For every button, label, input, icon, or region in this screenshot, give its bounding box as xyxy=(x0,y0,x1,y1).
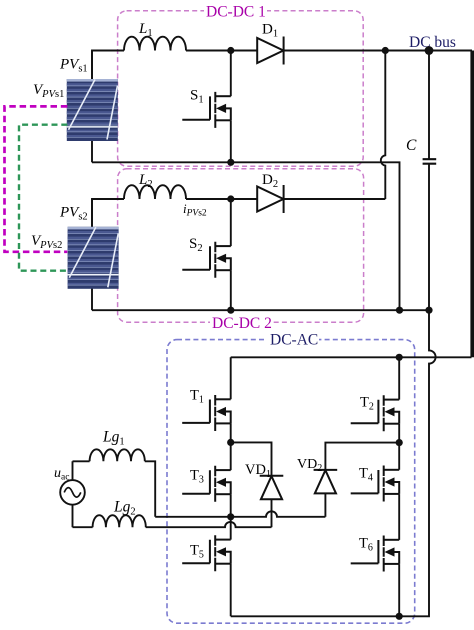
inductor Lg2 xyxy=(93,515,146,527)
svg-text:T2: T2 xyxy=(360,395,374,413)
svg-text:T3: T3 xyxy=(190,468,204,486)
svg-text:DC-AC: DC-AC xyxy=(270,332,318,349)
sense line V_PVs1 magenta xyxy=(5,106,68,251)
sense line V_PVs2 green xyxy=(19,125,67,271)
node S1 source xyxy=(227,159,234,166)
wire inverter left leg segments xyxy=(230,357,232,616)
svg-text:C: C xyxy=(406,137,417,154)
node capacitor bottom xyxy=(425,307,432,314)
inductor L2 xyxy=(124,185,186,199)
diode D2 xyxy=(257,185,283,213)
wire S2 source xyxy=(230,270,232,310)
diode D1 xyxy=(257,37,283,65)
capacitor C plates xyxy=(423,159,437,164)
node inverter bottom right xyxy=(396,613,403,620)
diode VD2 xyxy=(314,470,338,494)
mosfet T4 xyxy=(351,466,400,502)
wire DC bus right thick rail xyxy=(470,51,474,358)
node L1-D1-S1 xyxy=(227,47,234,54)
PV array 2 xyxy=(68,227,119,289)
ac source u_ac circle xyxy=(60,480,85,505)
node S2 source xyxy=(227,307,234,314)
wire Lg1 line to T3/T5 node and VD2 anode with hop over VD1 xyxy=(73,461,326,517)
wire D2-output vertical with hop over PV1 rail xyxy=(381,51,385,200)
node T3-T5 midpoint xyxy=(227,513,234,520)
wire PV1 left vertical xyxy=(91,51,93,163)
svg-text:T1: T1 xyxy=(190,388,204,406)
svg-text:Lg1: Lg1 xyxy=(102,429,125,448)
svg-text:VD2: VD2 xyxy=(297,457,322,474)
node T1-T3 midpoint xyxy=(227,439,234,446)
wire VD2 anode down xyxy=(324,493,326,517)
svg-text:D2: D2 xyxy=(262,172,278,190)
wire top rail DC bus xyxy=(92,51,472,80)
svg-text:Lg2: Lg2 xyxy=(113,499,136,518)
wire Lg2 line to VD1 anode with hop over left leg xyxy=(73,522,272,527)
wire PV2 top rail xyxy=(92,199,385,227)
svg-text:L1: L1 xyxy=(138,21,153,39)
capacitor C branch top xyxy=(428,51,430,160)
wire inverter top rail feed xyxy=(231,356,472,358)
node DC bus capacitor top xyxy=(425,46,434,55)
mosfet T1 xyxy=(182,395,231,431)
node L2-D2-S2 xyxy=(227,195,234,202)
wire PV2 bottom rail xyxy=(92,309,429,311)
svg-text:VD1: VD1 xyxy=(245,462,271,480)
diode VD1 xyxy=(260,476,284,500)
node D2 feed top xyxy=(382,47,389,54)
svg-text:DC-DC 1: DC-DC 1 xyxy=(206,4,266,21)
svg-text:T5: T5 xyxy=(190,543,204,561)
svg-text:PVs1: PVs1 xyxy=(59,57,88,75)
svg-text:L2: L2 xyxy=(138,172,153,190)
svg-text:S2: S2 xyxy=(189,236,203,254)
svg-text:VPVs2: VPVs2 xyxy=(31,233,62,251)
wire VD2 cathode link to T2/T4 node xyxy=(325,443,399,470)
wire VD1 cathode link to T1/T3 node xyxy=(231,442,272,475)
node T2-T4 midpoint xyxy=(396,439,403,446)
box DC-DC 1 xyxy=(118,11,364,166)
svg-text:S1: S1 xyxy=(190,88,204,106)
wire inverter bottom rail xyxy=(231,615,400,617)
svg-text:PVs2: PVs2 xyxy=(59,205,88,223)
PV array 1 xyxy=(67,79,118,141)
svg-text:T4: T4 xyxy=(359,466,373,484)
wire VD1 anode down xyxy=(271,499,273,527)
node inverter top right xyxy=(396,354,403,361)
wire S1 drain xyxy=(230,51,232,97)
box DC-DC 2 xyxy=(118,169,364,322)
wire PV1 bottom rail to node down xyxy=(92,162,400,310)
mosfet T2 xyxy=(351,395,400,431)
mosfet S1 xyxy=(182,92,231,128)
box DC-AC xyxy=(167,340,415,624)
svg-text:D1: D1 xyxy=(262,22,278,40)
mosfet T5 xyxy=(182,535,231,571)
svg-text:VPVs1: VPVs1 xyxy=(33,82,64,100)
capacitor C branch bottom, negative feed with hop, to inverter bottom xyxy=(399,164,435,617)
inductor L1 xyxy=(124,37,186,51)
wire u_ac stubs xyxy=(72,461,74,527)
wire S2 drain xyxy=(230,199,232,246)
svg-text:uac: uac xyxy=(54,466,69,483)
mosfet T3 xyxy=(182,466,231,502)
wire S1 source xyxy=(230,120,232,162)
wire PV2 left vertical xyxy=(91,199,93,310)
mosfet T6 xyxy=(351,536,400,572)
svg-text:T6: T6 xyxy=(359,536,373,554)
mosfet S2 xyxy=(182,242,231,278)
svg-text:iPVs2: iPVs2 xyxy=(183,201,207,219)
inductor Lg1 xyxy=(90,449,145,461)
node PV1 negative join xyxy=(396,307,403,314)
ac source sine xyxy=(64,488,81,498)
svg-text:DC-DC 2: DC-DC 2 xyxy=(212,315,272,332)
wire inverter right leg segments xyxy=(398,357,400,616)
